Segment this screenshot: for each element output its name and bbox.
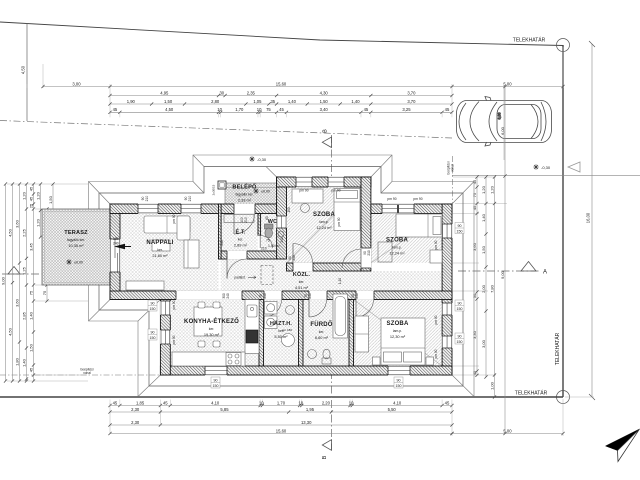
kitchen fridge xyxy=(246,330,258,343)
svg-text:10: 10 xyxy=(257,107,262,112)
svg-text:lam.p.: lam.p. xyxy=(319,220,328,224)
door etk xyxy=(227,251,247,260)
svg-text:padlásf.: padlásf. xyxy=(234,276,245,280)
svg-text:pm 90: pm 90 xyxy=(434,349,438,358)
szoba top floor xyxy=(287,187,362,263)
svg-text:pm 90: pm 90 xyxy=(434,240,438,249)
nightstand szoba-bottom left xyxy=(373,357,381,365)
bottom dimension row A xyxy=(110,405,452,407)
svg-text:4,10: 4,10 xyxy=(211,400,220,405)
svg-text:pm 90: pm 90 xyxy=(172,300,176,309)
kitchen sink xyxy=(247,305,257,317)
svg-text:4,50: 4,50 xyxy=(165,107,174,112)
bottom dimension row B xyxy=(110,411,452,413)
svg-text:B: B xyxy=(323,129,329,133)
svg-text:12,24 m²: 12,24 m² xyxy=(389,251,405,256)
svg-text:±0,00: ±0,00 xyxy=(261,190,270,194)
top property boundary line xyxy=(0,22,563,46)
dryer hazt xyxy=(265,316,278,329)
driveway fence line right xyxy=(452,174,640,176)
witness lines xyxy=(7,47,594,436)
kitchen counter bottom xyxy=(172,352,245,366)
wall exterior south xyxy=(160,366,452,375)
svg-text:fagyálló ker.: fagyálló ker. xyxy=(67,238,85,242)
door wc xyxy=(258,236,261,249)
partition nappali/etk xyxy=(219,204,222,259)
gutter outline xyxy=(89,155,475,397)
szoba bottom floor xyxy=(354,300,443,367)
svg-text:pm 90: pm 90 xyxy=(434,315,438,324)
sideboard nappali south xyxy=(126,281,164,290)
svg-text:210: 210 xyxy=(261,247,267,251)
window nappali north 2 xyxy=(181,204,201,214)
svg-text:1,25: 1,25 xyxy=(21,266,26,275)
wall exterior north left xyxy=(110,204,277,214)
svg-text:1,20: 1,20 xyxy=(35,191,40,200)
svg-text:60: 60 xyxy=(265,216,269,220)
svg-text:NAPPALI: NAPPALI xyxy=(146,240,173,246)
svg-text:30: 30 xyxy=(219,90,224,95)
svg-text:150: 150 xyxy=(457,307,463,311)
svg-text:75: 75 xyxy=(266,107,271,112)
svg-text:90: 90 xyxy=(458,302,462,306)
partition etk/wc xyxy=(258,214,261,236)
svg-text:6,00: 6,00 xyxy=(500,126,505,135)
boundary corner circle bottom xyxy=(557,391,570,404)
svg-text:BELÉPŐ: BELÉPŐ xyxy=(232,183,257,191)
bottom dimension row D xyxy=(110,433,452,435)
svg-text:6,00: 6,00 xyxy=(498,113,502,120)
svg-text:75: 75 xyxy=(28,290,33,295)
svg-text:4,30: 4,30 xyxy=(320,90,329,95)
entry arrow nappali xyxy=(114,244,125,249)
section line A-A right stub xyxy=(458,270,540,272)
svg-text:210: 210 xyxy=(244,217,248,223)
svg-text:13,30: 13,30 xyxy=(301,420,312,425)
svg-text:45: 45 xyxy=(28,186,33,191)
sofa nappali xyxy=(144,216,190,233)
toilet wc xyxy=(265,224,274,229)
svg-text:lam.p.: lam.p. xyxy=(392,246,401,250)
svg-text:3,00: 3,00 xyxy=(72,81,81,86)
svg-text:210: 210 xyxy=(145,196,149,202)
svg-text:1,20: 1,20 xyxy=(481,185,486,194)
dresser szoba-top xyxy=(292,189,323,203)
stove xyxy=(226,353,241,366)
bed szoba-top xyxy=(334,189,360,231)
svg-text:KONYHA-ÉTKEZŐ: KONYHA-ÉTKEZŐ xyxy=(184,317,239,325)
svg-text:75: 75 xyxy=(42,290,47,295)
svg-text:9,00: 9,00 xyxy=(0,276,5,285)
car top view in driveway xyxy=(457,85,552,160)
svg-text:pm 90: pm 90 xyxy=(413,197,422,201)
svg-text:1,95: 1,95 xyxy=(306,407,315,412)
svg-text:180: 180 xyxy=(113,237,119,241)
svg-text:210: 210 xyxy=(367,250,371,256)
bathtub furdo xyxy=(333,294,348,338)
top dimension row 3 xyxy=(110,103,452,105)
svg-text:vonal: vonal xyxy=(83,371,91,375)
svg-text:4,51 m²: 4,51 m² xyxy=(295,285,309,290)
svg-text:1,50: 1,50 xyxy=(481,245,486,254)
kozl floor xyxy=(221,259,287,291)
svg-text:1,00: 1,00 xyxy=(489,381,494,390)
svg-text:10,35 m²: 10,35 m² xyxy=(68,243,84,248)
svg-text:150: 150 xyxy=(213,384,219,388)
svg-text:3,40: 3,40 xyxy=(320,107,329,112)
svg-text:4,50: 4,50 xyxy=(21,65,26,74)
terrace sliding door west wall xyxy=(110,239,121,272)
door hazt xyxy=(264,291,282,300)
svg-text:pm 90: pm 90 xyxy=(337,217,341,226)
svg-text:5,50: 5,50 xyxy=(388,407,397,412)
svg-text:90: 90 xyxy=(214,379,218,383)
svg-text:2,00: 2,00 xyxy=(481,284,486,293)
svg-text:3,25: 3,25 xyxy=(402,107,411,112)
section marker B top xyxy=(322,137,331,148)
svg-text:150: 150 xyxy=(457,230,463,234)
svg-text:210: 210 xyxy=(292,255,296,261)
svg-text:A: A xyxy=(543,270,547,276)
bottom dimension row C xyxy=(110,424,452,426)
terrace floor xyxy=(42,209,110,285)
svg-text:5,85: 5,85 xyxy=(220,407,229,412)
bottom property boundary line xyxy=(0,396,563,398)
svg-text:3,70: 3,70 xyxy=(407,90,416,95)
svg-text:B: B xyxy=(322,455,328,459)
svg-text:12,24 m²: 12,24 m² xyxy=(316,225,332,230)
window szoba-bottom south xyxy=(388,366,410,376)
window size labels right wall xyxy=(455,223,464,234)
svg-text:5,00: 5,00 xyxy=(503,81,512,86)
svg-text:1,20: 1,20 xyxy=(35,218,40,227)
svg-text:1,05: 1,05 xyxy=(253,99,262,104)
svg-text:7,80: 7,80 xyxy=(489,284,494,293)
svg-text:15,60: 15,60 xyxy=(276,428,287,433)
window konyha west 1 xyxy=(160,301,171,315)
svg-text:2,85: 2,85 xyxy=(21,311,26,320)
svg-text:ker.: ker. xyxy=(319,330,325,334)
svg-text:45: 45 xyxy=(364,107,369,112)
top dimension row 4 xyxy=(110,111,452,113)
svg-text:-0,30: -0,30 xyxy=(541,165,551,170)
svg-text:240: 240 xyxy=(280,237,284,243)
left terrace dim 3,45 xyxy=(46,209,48,301)
window szoba-right north double xyxy=(382,204,414,214)
window size labels bottom xyxy=(211,377,220,388)
svg-text:1,50: 1,50 xyxy=(28,343,33,352)
svg-text:35: 35 xyxy=(270,99,275,104)
wall exterior east xyxy=(442,204,452,375)
window konyha west 2 xyxy=(160,330,171,344)
svg-text:SZOBA: SZOBA xyxy=(313,212,335,218)
svg-text:210: 210 xyxy=(355,293,359,299)
etk floor xyxy=(221,214,258,252)
wc floor xyxy=(260,214,276,252)
dresser szoba-right xyxy=(430,250,442,263)
svg-text:16,00: 16,00 xyxy=(586,212,591,223)
window jut north 1 xyxy=(296,177,312,188)
svg-text:2,89 m²: 2,89 m² xyxy=(234,243,248,248)
svg-text:210: 210 xyxy=(188,196,192,202)
svg-text:19,30 m²: 19,30 m² xyxy=(204,332,220,337)
svg-text:1,20: 1,20 xyxy=(21,191,26,200)
-0,30 terrain mark driveway xyxy=(533,164,539,170)
svg-text:150: 150 xyxy=(396,384,402,388)
svg-text:TELEKHATÁR: TELEKHATÁR xyxy=(513,37,546,44)
door szoba-top xyxy=(293,263,313,272)
svg-text:3,00: 3,00 xyxy=(481,339,486,348)
svg-text:150: 150 xyxy=(150,307,156,311)
svg-text:2,35: 2,35 xyxy=(247,90,256,95)
svg-text:ker.: ker. xyxy=(299,280,305,284)
wall etk south xyxy=(219,251,277,259)
svg-text:ker.: ker. xyxy=(238,238,244,242)
svg-text:6,60 m²: 6,60 m² xyxy=(315,335,329,340)
bed szoba-right xyxy=(396,214,442,237)
entry door opening xyxy=(234,204,255,214)
svg-text:210: 210 xyxy=(263,293,267,299)
beepitesi vonal horizontal dash line xyxy=(0,374,160,376)
svg-text:fagyálló ker.: fagyálló ker. xyxy=(235,193,253,197)
svg-text:45: 45 xyxy=(28,196,33,201)
svg-text:45: 45 xyxy=(163,400,168,405)
svg-text:TERASZ: TERASZ xyxy=(64,230,88,236)
svg-text:12,30 m²: 12,30 m² xyxy=(390,334,406,339)
svg-text:45: 45 xyxy=(113,400,118,405)
svg-text:1,70: 1,70 xyxy=(277,400,286,405)
svg-text:1,85: 1,85 xyxy=(136,400,145,405)
eaves outline (roof edge) xyxy=(99,167,463,387)
svg-text:pm 90: pm 90 xyxy=(331,189,340,193)
svg-text:90: 90 xyxy=(151,302,155,306)
level mark terasz xyxy=(66,259,72,265)
svg-text:SZOBA: SZOBA xyxy=(386,238,408,244)
svg-text:15,60: 15,60 xyxy=(276,81,287,86)
svg-text:1,40: 1,40 xyxy=(21,358,26,367)
survey triangle right xyxy=(568,162,580,172)
svg-text:1,80: 1,80 xyxy=(14,357,19,366)
svg-text:10: 10 xyxy=(298,400,303,405)
svg-text:10: 10 xyxy=(349,400,354,405)
svg-text:9,00: 9,00 xyxy=(500,270,505,279)
section marker A right xyxy=(521,262,536,272)
washbasin furdo xyxy=(308,350,317,359)
-0,30 terrain mark porch front xyxy=(249,156,255,162)
svg-text:240: 240 xyxy=(226,293,230,299)
szoba right floor xyxy=(371,214,442,264)
door szoba-bottom xyxy=(356,291,374,300)
svg-text:2,25: 2,25 xyxy=(21,228,26,237)
svg-text:150: 150 xyxy=(150,336,156,340)
kitchen counter right xyxy=(245,300,259,354)
16,00 dimension line far right xyxy=(591,44,593,397)
top dimension row 1 xyxy=(43,86,563,88)
svg-text:pm 90: pm 90 xyxy=(172,214,176,223)
wall west of jut / WC east xyxy=(277,177,287,259)
left dimension columns xyxy=(5,184,7,381)
svg-text:10: 10 xyxy=(259,400,264,405)
shelf etk xyxy=(224,215,254,223)
svg-text:10: 10 xyxy=(217,107,222,112)
svg-text:pm 90: pm 90 xyxy=(172,335,176,344)
svg-text:45: 45 xyxy=(445,400,450,405)
svg-text:1,90: 1,90 xyxy=(127,99,136,104)
svg-text:1,40: 1,40 xyxy=(288,99,297,104)
left top small dims xyxy=(40,184,42,237)
nightstand szoba-bottom right xyxy=(426,357,434,365)
svg-text:pm 90: pm 90 xyxy=(387,197,396,201)
svg-text:4,50: 4,50 xyxy=(7,327,12,336)
svg-text:2,80: 2,80 xyxy=(211,99,220,104)
right dimension columns xyxy=(476,177,478,375)
slanted setback dash line xyxy=(0,121,452,139)
svg-text:210: 210 xyxy=(308,293,312,299)
svg-text:240: 240 xyxy=(113,242,119,246)
svg-text:4,50: 4,50 xyxy=(7,228,12,237)
svg-text:pm 90: pm 90 xyxy=(299,189,308,193)
svg-text:90: 90 xyxy=(458,335,462,339)
svg-text:45: 45 xyxy=(279,107,284,112)
sink hazt xyxy=(286,306,295,315)
hazt floor xyxy=(264,300,299,367)
svg-text:75: 75 xyxy=(266,239,270,243)
svg-text:1,70: 1,70 xyxy=(235,107,244,112)
svg-text:210: 210 xyxy=(220,240,224,246)
partition hazt/furdo xyxy=(299,300,304,367)
svg-text:1,50: 1,50 xyxy=(164,99,173,104)
window size labels konyha west xyxy=(148,300,157,311)
washer hazt xyxy=(265,302,278,315)
wardrobe szoba-bottom xyxy=(355,316,369,352)
nappali floor xyxy=(120,214,219,292)
window szoba-bottom east 1 xyxy=(442,303,453,315)
roof hip lines xyxy=(89,155,475,397)
window konyha south xyxy=(205,366,227,376)
porch pillar 2x30/15 xyxy=(218,181,226,189)
window jut north 2 xyxy=(328,177,344,188)
svg-text:3,45: 3,45 xyxy=(28,242,33,251)
svg-text:45: 45 xyxy=(113,107,118,112)
svg-text:90: 90 xyxy=(458,224,462,228)
washbasin wc xyxy=(278,231,284,237)
wall exterior west (nappali) xyxy=(110,204,120,300)
svg-text:1,50: 1,50 xyxy=(48,195,53,204)
attic access hatch kozl xyxy=(261,266,273,285)
wall middle band east-west xyxy=(110,291,452,300)
svg-text:2,30: 2,30 xyxy=(131,407,140,412)
svg-text:25: 25 xyxy=(28,203,33,208)
svg-text:KÖZL.: KÖZL. xyxy=(293,271,310,278)
svg-text:WC: WC xyxy=(268,219,277,225)
svg-text:3,60: 3,60 xyxy=(14,219,19,228)
section line A-A left stub xyxy=(2,273,55,275)
rug szoba-right xyxy=(378,242,392,262)
coffee table nappali xyxy=(152,240,170,251)
chair szoba-top xyxy=(301,204,310,213)
wall exterior west konyha xyxy=(160,291,170,375)
window nappali north 1 xyxy=(138,204,158,214)
section line B-B vertical xyxy=(332,135,345,450)
right property boundary line xyxy=(562,45,564,397)
section marker A left xyxy=(8,267,20,275)
svg-text:lam.p.: lam.p. xyxy=(393,329,402,333)
svg-text:4,95: 4,95 xyxy=(160,90,169,95)
partition konyha/hazt xyxy=(259,300,264,367)
wall exterior north jut xyxy=(277,177,371,187)
svg-text:1,50: 1,50 xyxy=(320,99,329,104)
svg-text:TELEKHATÁR: TELEKHATÁR xyxy=(554,332,561,365)
svg-text:ker.: ker. xyxy=(157,248,163,252)
svg-text:1,10: 1,10 xyxy=(338,278,342,284)
svg-text:2,33 m²: 2,33 m² xyxy=(238,198,252,203)
partition furdo/szoba xyxy=(349,300,354,367)
svg-text:2,30: 2,30 xyxy=(131,420,140,425)
svg-text:1,40: 1,40 xyxy=(351,99,360,104)
section marker B bottom xyxy=(322,440,331,451)
svg-text:150: 150 xyxy=(457,340,463,344)
svg-text:45: 45 xyxy=(28,367,33,372)
svg-text:É.T.: É.T. xyxy=(235,228,245,236)
svg-text:3,60: 3,60 xyxy=(14,298,19,307)
window szoba-bottom east 2 xyxy=(442,336,453,348)
niche wc east wall xyxy=(276,216,287,228)
svg-text:1,40: 1,40 xyxy=(28,311,33,320)
svg-text:2,20: 2,20 xyxy=(322,400,331,405)
svg-text:FÜRDŐ: FÜRDŐ xyxy=(310,321,332,328)
left property boundary line xyxy=(26,23,28,121)
window szoba-right east xyxy=(442,224,453,238)
svg-text:vonal: vonal xyxy=(451,164,455,172)
toilet furdo xyxy=(322,358,331,364)
furdo floor xyxy=(303,300,349,367)
svg-text:±0,00: ±0,00 xyxy=(74,261,83,265)
boiler hazt gm180 xyxy=(282,334,295,347)
door szoba-right xyxy=(361,248,372,268)
boundary corner circle top xyxy=(557,39,570,52)
wall exterior north right xyxy=(371,204,452,214)
armchair / cabinet nappali xyxy=(184,240,199,268)
wall east of jut / between szoba xyxy=(361,177,371,271)
beepitesi vonal vertical dash line xyxy=(452,156,454,203)
porch floor (belepo) xyxy=(225,183,277,204)
svg-text:2x30/15: 2x30/15 xyxy=(212,184,216,195)
svg-text:5,50 m²: 5,50 m² xyxy=(274,334,288,339)
wall szoba-top south xyxy=(287,263,362,271)
konyha floor xyxy=(170,300,259,367)
svg-text:1,50 m²: 1,50 m² xyxy=(268,244,280,248)
bed szoba-bottom xyxy=(381,318,425,365)
opening nappali-konyha xyxy=(176,291,242,300)
door furdo xyxy=(309,291,327,300)
svg-text:HÁZT.H.: HÁZT.H. xyxy=(270,320,292,327)
svg-text:21,60 m²: 21,60 m² xyxy=(152,253,168,258)
svg-text:90: 90 xyxy=(397,379,401,383)
svg-text:1,20: 1,20 xyxy=(489,185,494,194)
dining table konyha xyxy=(194,307,222,336)
svg-text:ker.: ker. xyxy=(209,327,215,331)
svg-text:SZOBA: SZOBA xyxy=(387,321,409,327)
svg-text:90: 90 xyxy=(151,331,155,335)
svg-text:150: 150 xyxy=(287,207,291,213)
svg-text:4,10: 4,10 xyxy=(393,400,402,405)
svg-text:3,70: 3,70 xyxy=(407,99,416,104)
svg-text:TELEKHATÁR: TELEKHATÁR xyxy=(515,390,548,397)
north arrow xyxy=(606,429,640,451)
svg-text:45: 45 xyxy=(445,107,450,112)
bottom dimension 5,00 right xyxy=(452,433,563,435)
svg-text:ker.: ker. xyxy=(278,329,284,333)
